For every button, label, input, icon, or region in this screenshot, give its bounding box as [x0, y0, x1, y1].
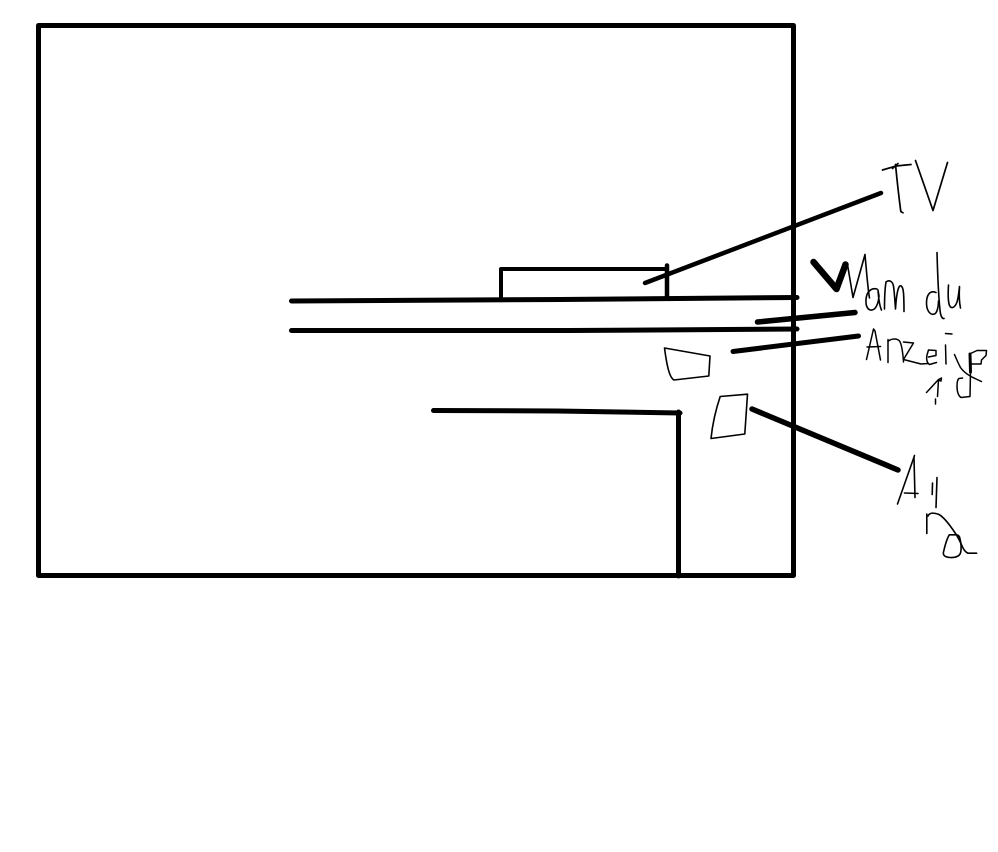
small hand-drawn box upper: [665, 348, 711, 380]
inner wall L-shape vertical: [676, 412, 681, 576]
handwritten label a: [927, 513, 977, 557]
pointer line to A label: [752, 409, 898, 470]
handwritten label Wand: [848, 253, 961, 319]
bold checkmark: [814, 262, 846, 289]
handwritten label 1: [927, 378, 942, 404]
wall shelf line lower: [292, 329, 798, 331]
handwritten label A: [898, 456, 938, 508]
TV box right edge: [665, 266, 670, 299]
handwritten label TV: [883, 161, 948, 213]
pointer line to Anzeige label: [733, 336, 859, 352]
room outline rectangle: [39, 26, 794, 576]
handwritten label Anzeige: [867, 329, 987, 398]
TV box: [501, 269, 666, 298]
pointer line to TV label: [645, 193, 881, 283]
small hand-drawn box lower: [711, 394, 748, 438]
pointer line to Wand label: [758, 313, 856, 323]
wall shelf line upper: [292, 298, 798, 302]
inner wall L-shape horizontal: [434, 411, 681, 414]
